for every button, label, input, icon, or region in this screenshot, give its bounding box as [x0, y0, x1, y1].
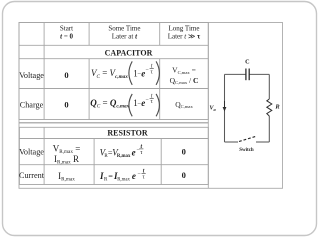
switch (open, dashed)	[239, 136, 256, 141]
wire top-right segment	[249, 73, 269, 75]
svg-text:C: C	[245, 58, 249, 65]
svg-text:R,max: R,max	[117, 154, 131, 159]
svg-text:0: 0	[182, 170, 186, 180]
wire left	[224, 74, 226, 142]
wire top-left segment	[225, 73, 246, 75]
svg-text:−: −	[146, 97, 149, 103]
resistor R zigzag	[267, 99, 272, 116]
wire bottom-left segment	[225, 141, 239, 143]
current arrow on left wire	[223, 101, 227, 112]
svg-text:t = 0: t = 0	[60, 33, 73, 41]
svg-text:−: −	[138, 171, 141, 177]
svg-text:Current: Current	[19, 171, 45, 180]
svg-text:R,max: R,max	[117, 178, 130, 183]
wire right upper	[268, 74, 270, 99]
svg-text:CAPACITOR: CAPACITOR	[105, 48, 153, 57]
svg-text:0: 0	[64, 100, 68, 110]
divider between tables and circuit	[207, 23, 209, 189]
svg-text:Some Time: Some Time	[108, 25, 140, 33]
svg-text:−: −	[146, 67, 149, 73]
wire right lower	[268, 116, 270, 142]
table header text	[60, 25, 201, 41]
svg-text:R: R	[274, 104, 280, 111]
svg-text:Charge: Charge	[20, 100, 44, 109]
svg-text:0: 0	[64, 70, 68, 80]
outer content box	[19, 23, 283, 189]
svg-text:Voltage: Voltage	[19, 71, 44, 80]
svg-text:=: =	[108, 172, 113, 181]
svg-text:Start: Start	[60, 25, 73, 33]
circuit schematic	[225, 74, 270, 142]
svg-text:e: e	[132, 147, 136, 157]
svg-text:Later at t: Later at t	[112, 33, 138, 41]
svg-text:e: e	[132, 171, 136, 181]
svg-text:Switch: Switch	[239, 148, 254, 153]
svg-text:RESISTOR: RESISTOR	[107, 129, 148, 138]
svg-text:0: 0	[182, 147, 186, 157]
capacitor table grid	[19, 23, 208, 120]
svg-text:Later t ≫ τ: Later t ≫ τ	[168, 33, 201, 41]
mid separator line under capacitor table	[19, 122, 208, 124]
svg-text:Voltage: Voltage	[19, 147, 44, 156]
wire bottom-right segment	[256, 141, 269, 143]
resistor table grid	[19, 127, 208, 184]
capacitor C plates	[246, 69, 249, 81]
svg-text:Long Time: Long Time	[169, 25, 200, 33]
